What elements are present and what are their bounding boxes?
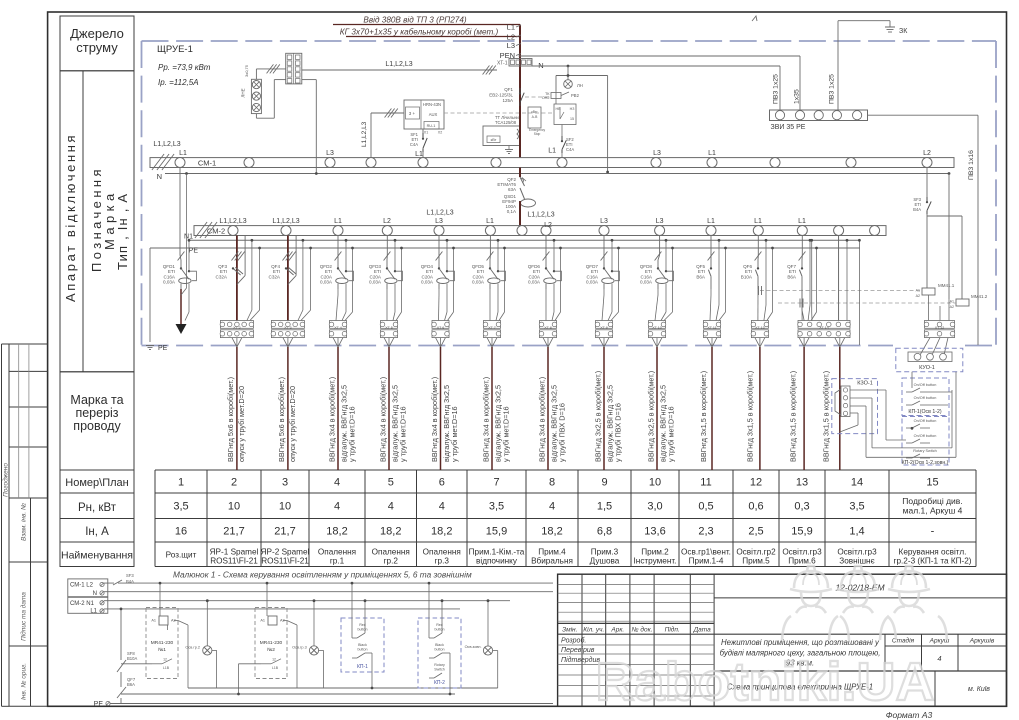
relay coil MM41.1 — [916, 283, 955, 298]
indicator lamp block ЛНЕ — [241, 79, 262, 113]
ground wire ЗК riser — [838, 21, 890, 110]
svg-text:0,5: 0,5 — [698, 501, 713, 513]
svg-text:Інструмент.: Інструмент. — [634, 557, 677, 566]
feeder QF7 drop — [799, 236, 818, 321]
svg-text:у трубі ПВХ D=16: у трубі ПВХ D=16 — [614, 403, 623, 462]
svg-text:КГ 3х70+1х35 у кабельному коро: КГ 3х70+1х35 у кабельному коробі (мет.) — [340, 28, 499, 37]
breaker QF6 — [741, 263, 759, 289]
svg-text:Погоджено: Погоджено — [1, 463, 9, 497]
svg-text:B10A: B10A — [127, 656, 137, 661]
terminal block XT-2 — [220, 321, 254, 338]
cable marking text — [789, 371, 798, 462]
svg-text:КП-2: КП-2 — [434, 680, 445, 686]
svg-text:XT-6: XT-6 — [437, 326, 445, 330]
svg-text:Осв.гр.2: Осв.гр.2 — [185, 646, 200, 650]
svg-text:Ввід 380В від ТП 3 (РП274): Ввід 380В від ТП 3 (РП274) — [363, 16, 466, 25]
svg-text:№ док.: № док. — [632, 626, 653, 634]
svg-text:ТСА125/08: ТСА125/08 — [495, 120, 517, 125]
svg-text:Змін.: Змін. — [562, 626, 577, 634]
bus СМ-2 — [194, 222, 886, 238]
svg-text:Прим.2: Прим.2 — [641, 548, 669, 557]
svg-text:0,03A: 0,03A — [320, 280, 333, 285]
svg-text:L1,L2,L3: L1,L2,L3 — [426, 210, 453, 217]
svg-text:Rotary Switch: Rotary Switch — [913, 449, 936, 453]
svg-text:L1,L2,L3: L1,L2,L3 — [272, 218, 299, 225]
svg-text:Рн, кВт: Рн, кВт — [78, 502, 117, 514]
svg-text:Прим.3: Прим.3 — [591, 548, 619, 557]
svg-text:2: 2 — [231, 477, 237, 489]
svg-text:MR41-230: MR41-230 — [151, 640, 174, 646]
cable to load (column at x=338) — [333, 338, 343, 470]
feeder QF6 drop — [755, 236, 774, 321]
svg-text:у трубі мет.D=16: у трубі мет.D=16 — [399, 406, 408, 462]
svg-text:Керування освітл.: Керування освітл. — [899, 548, 967, 557]
feeder data table grid — [155, 470, 976, 567]
svg-text:Подробиці див.: Подробиці див. — [902, 496, 962, 506]
panel ЩРУЕ-1 dashed boundary — [142, 41, 997, 346]
svg-text:A2: A2 — [950, 305, 954, 309]
svg-text:0,03A: 0,03A — [369, 280, 382, 285]
ground symbol ЗК — [885, 27, 908, 35]
svg-text:L2: L2 — [383, 218, 391, 225]
breaker QFD6 — [528, 263, 562, 289]
svg-text:у трубі мет.D=16: у трубі мет.D=16 — [450, 406, 459, 462]
svg-text:On/Off button: On/Off button — [914, 419, 937, 423]
svg-text:гр.3: гр.3 — [435, 557, 450, 566]
svg-text:Rabotniki.UA: Rabotniki.UA — [595, 652, 934, 712]
svg-text:B4A: B4A — [126, 579, 134, 584]
svg-text:0,03A: 0,03A — [421, 280, 434, 285]
svg-text:L1: L1 — [754, 218, 762, 225]
svg-text:Дата: Дата — [693, 627, 712, 634]
svg-text:L3: L3 — [653, 150, 661, 157]
svg-text:КУО-1: КУО-1 — [919, 365, 935, 371]
wires breaker to XT-6 — [438, 289, 441, 321]
cable marking text — [745, 371, 754, 462]
svg-text:L1: L1 — [415, 151, 423, 158]
feeder QFD6 drop — [543, 236, 562, 321]
svg-text:КП-2(Осв 1-2,зовн.): КП-2(Осв 1-2,зовн.) — [902, 460, 949, 466]
svg-text:ROS11\FI-21: ROS11\FI-21 — [210, 557, 258, 566]
lamp group 3 indicator — [292, 599, 323, 688]
svg-text:Номер\План: Номер\План — [65, 477, 128, 489]
breaker QFD4 — [421, 263, 455, 289]
svg-text:XT-2: XT-2 — [233, 326, 241, 330]
junction box КУО-1 — [896, 348, 963, 371]
svg-text:0,03A: 0,03A — [586, 280, 599, 285]
svg-text:10: 10 — [228, 501, 240, 513]
svg-text:L1,L2,L3: L1,L2,L3 — [385, 61, 412, 68]
svg-text:4: 4 — [439, 501, 445, 513]
control dashed link MM41.1 — [759, 286, 923, 295]
cable marking text — [699, 371, 708, 462]
terminal block XT-13 — [751, 321, 769, 338]
svg-text:ВВГнгд 3х4 в коробі(мет.): ВВГнгд 3х4 в коробі(мет.) — [378, 377, 387, 462]
terminal block XT-3 — [271, 321, 305, 338]
wires КП-2 bottom — [428, 582, 452, 696]
svg-text:L1: L1 — [486, 218, 494, 225]
svg-text:кВтг: кВтг — [531, 110, 538, 114]
main riser wire — [519, 25, 521, 158]
svg-text:у трубі мет.D=16: у трубі мет.D=16 — [667, 406, 676, 462]
cable to load (column at x=287.9) — [283, 338, 293, 470]
svg-text:PE: PE — [189, 248, 199, 255]
svg-text:РЕ: РЕ — [94, 701, 104, 708]
svg-text:Інв. № ориг.: Інв. № ориг. — [21, 663, 28, 700]
feeder QFD5 drop — [487, 236, 506, 321]
svg-text:21,7: 21,7 — [223, 526, 244, 538]
svg-text:XT-14: XT-14 — [819, 326, 829, 330]
svg-text:18,2: 18,2 — [431, 526, 452, 538]
svg-text:8: 8 — [549, 477, 555, 489]
svg-text:Взам. інв. №: Взам. інв. № — [20, 503, 28, 541]
svg-text:125A: 125A — [502, 98, 513, 103]
svg-text:проводу: проводу — [73, 419, 121, 433]
svg-text:гр.2: гр.2 — [384, 557, 399, 566]
svg-text:ОН2: ОН2 — [542, 96, 550, 100]
svg-text:м. Київ: м. Київ — [968, 686, 990, 693]
svg-text:Марка та: Марка та — [70, 393, 123, 407]
svg-text:Опалення: Опалення — [423, 548, 461, 557]
terminal block lamp XT — [286, 53, 302, 84]
svg-text:18,2: 18,2 — [380, 526, 401, 538]
wire N1 rail — [104, 600, 510, 602]
wire L123 to XT-1 — [302, 61, 497, 174]
format label — [886, 710, 933, 720]
cable marking text — [481, 377, 510, 462]
svg-text:Кіл. уч.: Кіл. уч. — [583, 626, 604, 634]
svg-text:Black: Black — [358, 643, 367, 647]
svg-text:КП-1(Осв 1-2): КП-1(Осв 1-2) — [908, 409, 941, 415]
cable marking text — [327, 377, 356, 462]
bus СМ-2 connection points — [228, 226, 880, 236]
svg-text:L1: L1 — [548, 148, 556, 155]
svg-text:ВВГнгд 5х6 в коробі(мет.): ВВГнгд 5х6 в коробі(мет.) — [277, 377, 286, 462]
svg-text:ПВЗ 1х25: ПВЗ 1х25 — [773, 74, 780, 104]
svg-text:6: 6 — [439, 477, 445, 489]
cable to load (column at x=440.5) — [436, 338, 446, 470]
svg-text:Ір. =112,5А: Ір. =112,5А — [158, 78, 199, 87]
contactor MR41-230 #1 — [146, 608, 178, 679]
wires breaker to XT-7 — [489, 289, 491, 321]
svg-text:ВВГнгд 5х6 в коробі(мет.): ВВГнгд 5х6 в коробі(мет.) — [226, 377, 235, 462]
svg-text:10: 10 — [649, 477, 661, 489]
svg-text:X2: X2 — [438, 131, 442, 135]
photo relay КЗО-1 — [832, 379, 878, 434]
document number — [835, 583, 885, 593]
city label — [935, 671, 990, 706]
cable marking text — [593, 371, 622, 462]
feeder QFD7 drop — [601, 236, 620, 321]
relay РВ2 — [542, 92, 580, 100]
svg-text:A1: A1 — [260, 619, 265, 623]
breaker QF7 bottom — [117, 677, 136, 698]
svg-text:ВВГнгд 3х4 в коробі(мет.): ВВГнгд 3х4 в коробі(мет.) — [481, 377, 490, 462]
svg-text:L3: L3 — [326, 150, 334, 157]
svg-text:11: 11 — [700, 477, 711, 489]
svg-text:6,8: 6,8 — [597, 526, 612, 538]
PE ground symbol — [146, 345, 168, 352]
svg-text:КЗО-1: КЗО-1 — [857, 381, 873, 387]
svg-text:Опалення: Опалення — [372, 548, 410, 557]
metering TT block — [483, 106, 521, 158]
svg-text:Освітл.гр3: Освітл.гр3 — [782, 548, 822, 557]
svg-text:15,9: 15,9 — [486, 526, 507, 538]
svg-text:14: 14 — [851, 477, 863, 489]
incoming cable title — [340, 16, 499, 37]
feeder QFD3 drop — [384, 236, 403, 321]
cable marking text — [537, 377, 566, 462]
svg-text:XT-13: XT-13 — [755, 326, 765, 330]
cable to load (column at x=759.9) — [755, 338, 765, 470]
breaker QF7 — [787, 263, 803, 289]
svg-text:7: 7 — [493, 477, 499, 489]
svg-text:L1,L2,L3: L1,L2,L3 — [219, 218, 246, 225]
title block header labels — [561, 626, 711, 664]
wires breaker to XT-2 — [0, 0, 1, 1]
wire N — [157, 172, 951, 181]
svg-text:ЩРУЕ-1: ЩРУЕ-1 — [157, 44, 193, 55]
svg-text:ЛНЕ: ЛНЕ — [241, 88, 246, 97]
svg-text:2,3: 2,3 — [698, 526, 713, 538]
svg-text:Джерело: Джерело — [70, 26, 124, 41]
watermark — [595, 566, 947, 712]
svg-text:Rotary: Rotary — [434, 663, 445, 667]
svg-text:3х0,75: 3х0,75 — [244, 64, 249, 77]
terminal block XT-12 — [924, 295, 955, 338]
svg-text:AUX: AUX — [429, 112, 438, 117]
breaker QFD3 — [369, 263, 403, 289]
svg-text:QF1: QF1 — [504, 87, 513, 92]
svg-text:2,5: 2,5 — [748, 526, 763, 538]
svg-text:Освітл.гр3: Освітл.гр3 — [837, 548, 877, 557]
wire control rail — [556, 74, 609, 173]
svg-text:4: 4 — [388, 501, 394, 513]
svg-text:N: N — [93, 591, 97, 597]
cable to load (column at x=839.8) — [835, 338, 845, 470]
svg-text:3: 3 — [282, 477, 288, 489]
svg-text:L1B: L1B — [163, 666, 170, 670]
svg-text:button: button — [435, 628, 445, 632]
svg-text:ВВГнгд 3х1,5 в коробі(мет.): ВВГнгд 3х1,5 в коробі(мет.) — [745, 371, 754, 462]
feeder QFD1 load arrow — [176, 174, 187, 335]
wire HRN supply — [361, 109, 404, 158]
terminal block XT-5 — [380, 321, 398, 338]
svg-text:струму: струму — [76, 40, 118, 55]
svg-text:15,9: 15,9 — [791, 526, 812, 538]
terminal block XT-8 — [539, 321, 557, 338]
svg-text:3,0: 3,0 — [647, 501, 662, 513]
breaker QF3 — [216, 264, 244, 279]
svg-text:Арк.: Арк. — [610, 627, 624, 634]
feeder QFD2 drop — [335, 236, 354, 321]
svg-text:16: 16 — [175, 526, 187, 538]
svg-text:гр.1: гр.1 — [330, 557, 345, 566]
svg-text:C32A: C32A — [216, 274, 228, 279]
terminal block XT-9 — [595, 321, 613, 338]
table row: Рн кВт values — [173, 496, 962, 516]
wire lamp return rail — [188, 687, 498, 689]
svg-text:ВВГнгд 3х4 в коробі(мет.): ВВГнгд 3х4 в коробі(мет.) — [537, 377, 546, 462]
svg-text:гр.2-3 (КП-1 та КП-2): гр.2-3 (КП-1 та КП-2) — [893, 557, 971, 566]
svg-text:ЯР-1 Spamel: ЯР-1 Spamel — [210, 548, 259, 557]
svg-text:13,6: 13,6 — [644, 526, 665, 538]
svg-text:XT-1: XT-1 — [497, 61, 508, 67]
svg-text:ВВГнгд 3х1,5 в коробі(мет.): ВВГнгд 3х1,5 в коробі(мет.) — [822, 371, 831, 462]
svg-text:15: 15 — [570, 117, 574, 121]
svg-text:1: 1 — [178, 477, 184, 489]
feeder QF4 drop — [282, 236, 312, 321]
svg-text:C4A: C4A — [566, 147, 574, 152]
svg-text:Освітл.гр2: Освітл.гр2 — [736, 548, 776, 557]
cable to load (column at x=548) — [543, 338, 553, 470]
svg-text:L1,L2,L3: L1,L2,L3 — [153, 141, 180, 148]
svg-text:EB2-125/3L: EB2-125/3L — [489, 93, 513, 98]
svg-text:Прим.1-Кім.-та: Прим.1-Кім.-та — [469, 548, 525, 557]
svg-text:опуск у трубі мет.D=20: опуск у трубі мет.D=20 — [237, 386, 246, 462]
svg-text:Підпис та дата: Підпис та дата — [20, 592, 28, 641]
svg-text:12: 12 — [163, 658, 167, 662]
wires breaker to XT-13 — [757, 289, 759, 321]
table row: Ін А values — [175, 526, 935, 538]
feeder QFD1 drop — [178, 168, 191, 321]
cable marking text — [378, 377, 407, 462]
svg-text:Осв.гр.3: Осв.гр.3 — [292, 646, 307, 650]
svg-text:0,03A: 0,03A — [163, 280, 176, 285]
svg-text:HRN-43N: HRN-43N — [423, 102, 441, 107]
svg-text:1,5: 1,5 — [597, 501, 612, 513]
svg-text:СМ-1 L2: СМ-1 L2 — [70, 583, 94, 589]
svg-text:XT-11: XT-11 — [707, 326, 716, 330]
cable to load (column at x=389) — [384, 338, 394, 470]
breaker SF3 — [913, 168, 931, 289]
svg-text:B6A: B6A — [696, 274, 706, 279]
svg-text:L1: L1 — [334, 218, 342, 225]
svg-text:21,7: 21,7 — [274, 526, 295, 538]
svg-text:button: button — [435, 648, 445, 652]
svg-text:10: 10 — [279, 501, 291, 513]
svg-text:0,1A: 0,1A — [507, 209, 516, 214]
svg-text:0,03A: 0,03A — [472, 280, 485, 285]
svg-text:Рр. =73,9 кВт: Рр. =73,9 кВт — [158, 63, 211, 72]
svg-text:13: 13 — [796, 477, 808, 489]
svg-text:Прим.5: Прим.5 — [742, 557, 770, 566]
svg-text:у трубі мет.D=16: у трубі мет.D=16 — [502, 406, 511, 462]
wires КЗО-1 connections — [840, 390, 886, 457]
breaker SF2 — [548, 125, 574, 158]
breaker QF5 — [696, 263, 712, 289]
svg-text:ЛН: ЛН — [577, 83, 583, 88]
terminal block XT-7 — [483, 321, 501, 338]
svg-text:Нежитлові приміщення, що розта: Нежитлові приміщення, що розташовані у — [721, 638, 880, 647]
svg-text:L1: L1 — [179, 150, 187, 157]
svg-text:L2: L2 — [544, 222, 552, 229]
svg-text:4: 4 — [334, 501, 340, 513]
svg-text:ЯР-2 Spamel: ЯР-2 Spamel — [261, 548, 310, 557]
svg-text:XT-4: XT-4 — [334, 326, 342, 330]
svg-text:3 +: 3 + — [409, 111, 416, 116]
svg-text:button: button — [358, 628, 368, 632]
svg-text:3,5: 3,5 — [173, 501, 188, 513]
svg-text:Тип , Ін , А: Тип , Ін , А — [115, 193, 130, 270]
svg-text:Розроб.: Розроб. — [561, 637, 586, 645]
feeder QF3 drop — [231, 236, 261, 321]
svg-text:1х35: 1х35 — [794, 89, 801, 104]
svg-text:ВВГнгд 3х4 в коробі(мет.): ВВГнгд 3х4 в коробі(мет.) — [327, 377, 336, 462]
svg-text:XT-12: XT-12 — [935, 326, 945, 330]
svg-text:ВВГнгд 3х4 в коробі(мет.): ВВГнгд 3х4 в коробі(мет.) — [430, 377, 439, 462]
svg-text:XT-7: XT-7 — [488, 326, 496, 330]
svg-text:ROS11\FI-21: ROS11\FI-21 — [261, 557, 309, 566]
svg-text:Вбиральня: Вбиральня — [531, 557, 573, 566]
wires button panels — [866, 372, 956, 458]
feeder QFD4 drop — [436, 236, 455, 321]
control dashed link MM41.2 — [778, 299, 956, 308]
wire N1 to КУО — [858, 239, 861, 345]
breaker QF4 — [269, 264, 297, 279]
svg-text:L1: L1 — [708, 150, 716, 157]
wire L2 rail — [104, 582, 553, 584]
svg-text:СМ-1: СМ-1 — [198, 159, 216, 168]
svg-text:L3: L3 — [435, 218, 443, 225]
svg-text:0,03A: 0,03A — [640, 280, 653, 285]
svg-text:ВВГнгд 3х1,5 в коробі(мет.): ВВГнгд 3х1,5 в коробі(мет.) — [699, 371, 708, 462]
wire N from XT-1 — [532, 65, 780, 68]
svg-text:кВт: кВт — [491, 138, 497, 142]
svg-text:Black: Black — [435, 643, 444, 647]
svg-text:Аркушів: Аркушів — [969, 637, 995, 645]
svg-text:15: 15 — [926, 477, 938, 489]
svg-text:СМ-2: СМ-2 — [207, 227, 225, 236]
cable marking text — [226, 377, 246, 462]
feeder QFD8 drop — [655, 236, 674, 321]
svg-text:4: 4 — [937, 654, 941, 663]
stage sheet columns — [885, 634, 1007, 671]
breaker QFD5 — [472, 263, 506, 289]
svg-text:3,5: 3,5 — [849, 501, 864, 513]
breaker SF3 bottom — [113, 573, 134, 585]
svg-text:4: 4 — [549, 501, 555, 513]
meter ground — [505, 146, 513, 154]
svg-text:Апарат відключення: Апарат відключення — [63, 133, 78, 302]
svg-text:L1,L2,L3: L1,L2,L3 — [361, 121, 368, 147]
svg-text:L3: L3 — [600, 218, 608, 225]
relay coil MM41.2 — [950, 294, 988, 309]
svg-text:у трубі мет.D=16: у трубі мет.D=16 — [348, 406, 357, 462]
wire N to relay — [927, 174, 962, 300]
svg-text:Перевірив: Перевірив — [561, 646, 595, 654]
svg-text:On/Off button: On/Off button — [914, 383, 937, 387]
svg-text:B4A: B4A — [913, 207, 921, 212]
push button panel КП-2 — [902, 417, 949, 467]
svg-text:РВ2: РВ2 — [571, 93, 580, 98]
svg-text:відпочинку: відпочинку — [476, 557, 518, 566]
wire lamp block to terminal — [244, 64, 286, 118]
svg-text:Осв.гр1\вент.: Осв.гр1\вент. — [681, 548, 731, 557]
svg-text:Прим.4: Прим.4 — [538, 548, 566, 557]
wire PE — [150, 248, 860, 343]
wire PE bottom rail — [94, 701, 553, 708]
wires КП-1 bottom — [351, 582, 374, 690]
cable marking text — [277, 377, 297, 462]
wires breaker to XT-10 — [655, 289, 658, 321]
svg-text:Stop: Stop — [534, 132, 541, 136]
main breaker QF1 — [489, 87, 524, 106]
svg-text:L1: L1 — [507, 23, 515, 32]
breaker QFD2 — [320, 263, 354, 289]
svg-text:X1: X1 — [424, 131, 428, 135]
table row: Номер\План values — [178, 477, 939, 489]
